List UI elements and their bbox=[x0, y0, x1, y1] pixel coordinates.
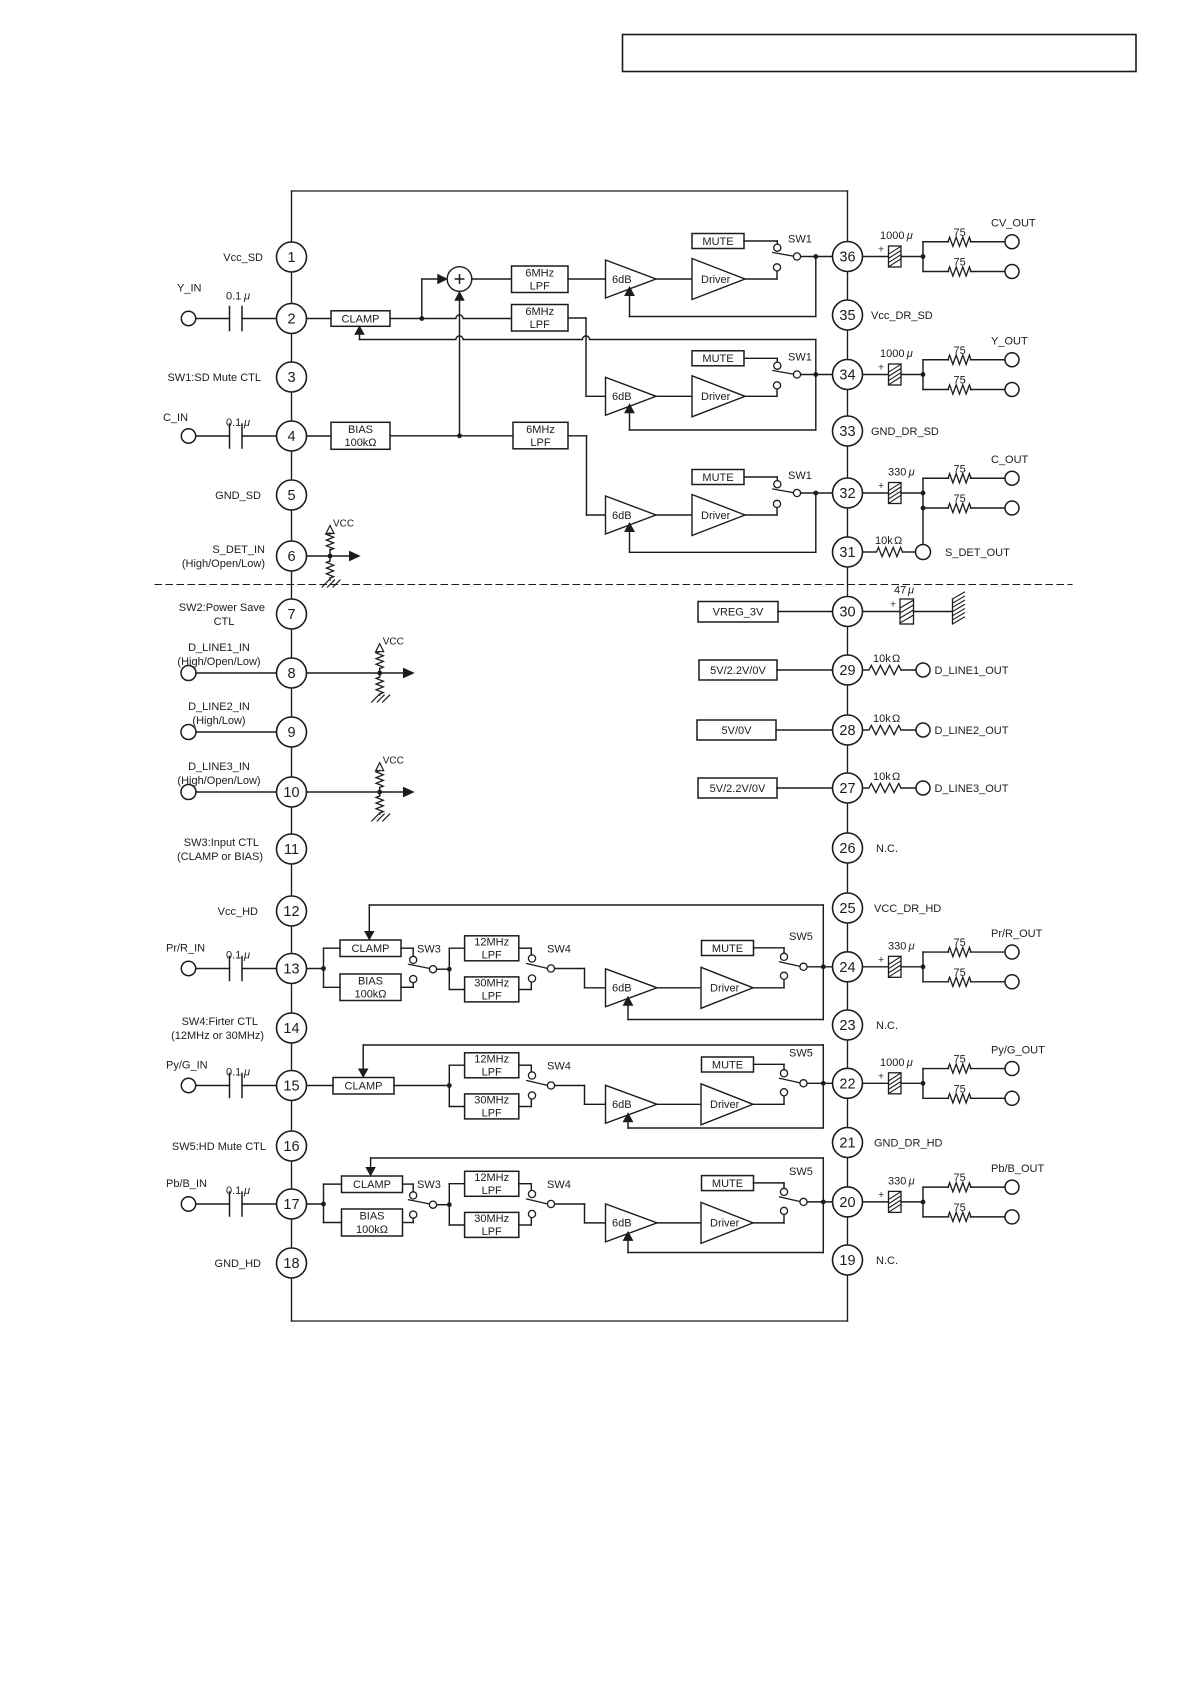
svg-text:34: 34 bbox=[839, 368, 855, 384]
svg-text:10k: 10k bbox=[873, 653, 891, 665]
svg-text:26: 26 bbox=[839, 841, 855, 857]
svg-text:28: 28 bbox=[839, 723, 855, 739]
svg-text:12MHz: 12MHz bbox=[474, 1054, 509, 1066]
svg-text:VREG_3V: VREG_3V bbox=[713, 607, 764, 619]
svg-text:SW4: SW4 bbox=[547, 1061, 571, 1073]
svg-text:C_OUT: C_OUT bbox=[991, 454, 1029, 466]
svg-text:BIAS: BIAS bbox=[348, 424, 373, 436]
svg-text:MUTE: MUTE bbox=[712, 1178, 743, 1190]
svg-text:GND_HD: GND_HD bbox=[215, 1258, 262, 1270]
svg-text:12: 12 bbox=[283, 904, 299, 920]
svg-text:75: 75 bbox=[954, 937, 966, 949]
svg-text:μ: μ bbox=[906, 348, 913, 360]
svg-text:SW3: SW3 bbox=[417, 1179, 441, 1191]
svg-text:Vcc_SD: Vcc_SD bbox=[223, 252, 263, 264]
svg-text:BIAS: BIAS bbox=[358, 975, 383, 987]
svg-text:Driver: Driver bbox=[701, 391, 731, 403]
svg-text:MUTE: MUTE bbox=[712, 943, 743, 955]
svg-text:+: + bbox=[890, 599, 896, 611]
svg-text:18: 18 bbox=[283, 1256, 299, 1272]
svg-text:10: 10 bbox=[283, 785, 299, 801]
svg-text:75: 75 bbox=[954, 493, 966, 505]
svg-text:13: 13 bbox=[283, 962, 299, 978]
svg-text:+: + bbox=[878, 362, 884, 374]
svg-text:BIAS: BIAS bbox=[359, 1211, 384, 1223]
svg-text:LPF: LPF bbox=[530, 437, 550, 449]
svg-text:SW1: SW1 bbox=[788, 470, 812, 482]
svg-text:GND_DR_HD: GND_DR_HD bbox=[874, 1138, 943, 1150]
svg-text:SW1: SW1 bbox=[788, 234, 812, 246]
svg-text:Pr/R_OUT: Pr/R_OUT bbox=[991, 928, 1043, 940]
svg-text:21: 21 bbox=[839, 1136, 855, 1152]
svg-text:CLAMP: CLAMP bbox=[345, 1081, 383, 1093]
svg-text:330: 330 bbox=[888, 467, 906, 479]
svg-text:Driver: Driver bbox=[701, 510, 731, 522]
svg-text:+: + bbox=[878, 954, 884, 966]
svg-text:75: 75 bbox=[954, 1172, 966, 1184]
svg-text:μ: μ bbox=[906, 230, 913, 242]
svg-text:75: 75 bbox=[954, 257, 966, 269]
svg-text:MUTE: MUTE bbox=[702, 353, 733, 365]
svg-text:30: 30 bbox=[839, 605, 855, 621]
svg-text:SW5: SW5 bbox=[789, 1047, 813, 1059]
svg-text:(CLAMP or BIAS): (CLAMP or BIAS) bbox=[177, 851, 263, 863]
svg-text:LPF: LPF bbox=[482, 1185, 502, 1197]
svg-text:Driver: Driver bbox=[710, 1218, 740, 1230]
svg-text:D_LINE1_IN: D_LINE1_IN bbox=[188, 642, 250, 654]
svg-text:Ω: Ω bbox=[892, 713, 900, 725]
svg-text:11: 11 bbox=[284, 842, 299, 858]
svg-text:Ω: Ω bbox=[892, 653, 900, 665]
svg-text:LPF: LPF bbox=[530, 319, 550, 331]
svg-text:C_IN: C_IN bbox=[163, 412, 188, 424]
svg-text:Driver: Driver bbox=[701, 274, 731, 286]
svg-text:(High/Open/Low): (High/Open/Low) bbox=[182, 558, 265, 570]
svg-text:μ: μ bbox=[908, 940, 915, 952]
svg-text:3: 3 bbox=[287, 370, 295, 386]
svg-text:9: 9 bbox=[287, 725, 295, 741]
svg-text:SW4:Firter CTL: SW4:Firter CTL bbox=[182, 1016, 258, 1028]
svg-text:14: 14 bbox=[283, 1021, 299, 1037]
svg-text:μ: μ bbox=[243, 417, 250, 429]
svg-text:Pr/R_IN: Pr/R_IN bbox=[166, 943, 205, 955]
svg-text:22: 22 bbox=[839, 1077, 855, 1093]
svg-text:D_LINE2_IN: D_LINE2_IN bbox=[188, 701, 250, 713]
svg-text:LPF: LPF bbox=[482, 1067, 502, 1079]
svg-text:6MHz: 6MHz bbox=[525, 306, 554, 318]
svg-text:33: 33 bbox=[839, 424, 855, 440]
svg-text:GND_DR_SD: GND_DR_SD bbox=[871, 426, 939, 438]
svg-text:330: 330 bbox=[888, 940, 906, 952]
svg-text:8: 8 bbox=[287, 666, 295, 682]
svg-text:D_LINE3_OUT: D_LINE3_OUT bbox=[935, 783, 1009, 795]
svg-text:Pb/B_OUT: Pb/B_OUT bbox=[991, 1163, 1044, 1175]
svg-text:25: 25 bbox=[839, 901, 855, 917]
svg-text:+: + bbox=[878, 1070, 884, 1082]
svg-text:7: 7 bbox=[287, 607, 295, 623]
svg-text:SW5: SW5 bbox=[789, 1166, 813, 1178]
svg-text:1000: 1000 bbox=[880, 1057, 904, 1069]
svg-text:15: 15 bbox=[283, 1079, 299, 1095]
svg-text:Driver: Driver bbox=[710, 983, 740, 995]
svg-text:31: 31 bbox=[839, 545, 855, 561]
svg-text:10k: 10k bbox=[873, 771, 891, 783]
svg-text:6MHz: 6MHz bbox=[525, 268, 554, 280]
svg-text:SW4: SW4 bbox=[547, 1179, 571, 1191]
svg-text:5: 5 bbox=[287, 488, 295, 504]
svg-text:SW5:HD Mute CTL: SW5:HD Mute CTL bbox=[172, 1141, 266, 1153]
svg-text:1000: 1000 bbox=[880, 230, 904, 242]
svg-text:5V/2.2V/0V: 5V/2.2V/0V bbox=[710, 783, 766, 795]
svg-text:30MHz: 30MHz bbox=[474, 1095, 509, 1107]
svg-text:CV_OUT: CV_OUT bbox=[991, 218, 1036, 230]
svg-text:4: 4 bbox=[287, 429, 295, 445]
svg-text:D_LINE1_OUT: D_LINE1_OUT bbox=[935, 665, 1009, 677]
svg-text:LPF: LPF bbox=[482, 1226, 502, 1238]
svg-text:+: + bbox=[878, 1189, 884, 1201]
svg-text:MUTE: MUTE bbox=[712, 1059, 743, 1071]
svg-text:6dB: 6dB bbox=[612, 274, 632, 286]
svg-text:75: 75 bbox=[954, 1083, 966, 1095]
svg-text:+: + bbox=[878, 244, 884, 256]
svg-text:16: 16 bbox=[283, 1139, 299, 1155]
svg-text:CTL: CTL bbox=[214, 616, 235, 628]
svg-text:19: 19 bbox=[839, 1253, 855, 1269]
svg-text:Ω: Ω bbox=[892, 771, 900, 783]
svg-text:μ: μ bbox=[908, 467, 915, 479]
svg-text:100kΩ: 100kΩ bbox=[356, 1224, 388, 1236]
svg-text:VCC: VCC bbox=[383, 756, 404, 767]
svg-text:5V/2.2V/0V: 5V/2.2V/0V bbox=[710, 665, 766, 677]
svg-text:VCC: VCC bbox=[333, 519, 354, 530]
svg-text:30MHz: 30MHz bbox=[474, 978, 509, 990]
svg-text:Py/G_OUT: Py/G_OUT bbox=[991, 1044, 1045, 1056]
svg-text:μ: μ bbox=[907, 585, 914, 597]
svg-text:47: 47 bbox=[894, 585, 906, 597]
svg-text:27: 27 bbox=[839, 781, 855, 797]
svg-text:6dB: 6dB bbox=[612, 391, 632, 403]
svg-text:330: 330 bbox=[888, 1175, 906, 1187]
svg-text:35: 35 bbox=[839, 308, 855, 324]
svg-text:0.1: 0.1 bbox=[226, 1185, 241, 1197]
svg-text:0.1: 0.1 bbox=[226, 950, 241, 962]
svg-text:5V/0V: 5V/0V bbox=[722, 725, 753, 737]
svg-text:12MHz: 12MHz bbox=[474, 1172, 509, 1184]
svg-text:MUTE: MUTE bbox=[702, 472, 733, 484]
svg-text:Y_IN: Y_IN bbox=[177, 283, 202, 295]
svg-text:Vcc_HD: Vcc_HD bbox=[218, 906, 258, 918]
svg-text:10k: 10k bbox=[875, 535, 893, 547]
svg-text:0.1: 0.1 bbox=[226, 1067, 241, 1079]
svg-text:36: 36 bbox=[839, 250, 855, 266]
svg-text:μ: μ bbox=[243, 950, 250, 962]
svg-text:6: 6 bbox=[287, 549, 295, 565]
svg-text:32: 32 bbox=[839, 486, 855, 502]
svg-text:SW1:SD Mute CTL: SW1:SD Mute CTL bbox=[167, 372, 261, 384]
svg-text:Pb/B_IN: Pb/B_IN bbox=[166, 1178, 207, 1190]
svg-text:μ: μ bbox=[243, 1185, 250, 1197]
svg-text:75: 75 bbox=[954, 227, 966, 239]
svg-text:LPF: LPF bbox=[482, 1108, 502, 1120]
svg-text:Vcc_DR_SD: Vcc_DR_SD bbox=[871, 310, 933, 322]
svg-text:μ: μ bbox=[908, 1175, 915, 1187]
svg-text:1: 1 bbox=[287, 250, 295, 266]
svg-text:CLAMP: CLAMP bbox=[342, 313, 380, 325]
svg-text:SW2:Power Save: SW2:Power Save bbox=[179, 602, 265, 614]
svg-text:(High/Low): (High/Low) bbox=[192, 715, 245, 727]
svg-text:GND_SD: GND_SD bbox=[215, 490, 261, 502]
svg-text:6dB: 6dB bbox=[612, 983, 632, 995]
svg-text:LPF: LPF bbox=[482, 950, 502, 962]
svg-text:VCC: VCC bbox=[383, 637, 404, 648]
svg-text:6MHz: 6MHz bbox=[526, 424, 555, 436]
svg-text:N.C.: N.C. bbox=[876, 843, 898, 855]
svg-text:100kΩ: 100kΩ bbox=[354, 989, 386, 1001]
svg-text:6dB: 6dB bbox=[612, 1099, 632, 1111]
svg-text:+: + bbox=[878, 480, 884, 492]
svg-text:S_DET_OUT: S_DET_OUT bbox=[945, 547, 1010, 559]
svg-text:S_DET_IN: S_DET_IN bbox=[212, 544, 265, 556]
svg-text:75: 75 bbox=[954, 1054, 966, 1066]
svg-text:LPF: LPF bbox=[530, 281, 550, 293]
svg-text:23: 23 bbox=[839, 1018, 855, 1034]
svg-text:LPF: LPF bbox=[482, 991, 502, 1003]
svg-text:6dB: 6dB bbox=[612, 510, 632, 522]
svg-text:Py/G_IN: Py/G_IN bbox=[166, 1060, 208, 1072]
svg-text:1000: 1000 bbox=[880, 348, 904, 360]
svg-text:VCC_DR_HD: VCC_DR_HD bbox=[874, 903, 941, 915]
svg-text:μ: μ bbox=[243, 1067, 250, 1079]
svg-text:(12MHz or 30MHz): (12MHz or 30MHz) bbox=[171, 1030, 264, 1042]
svg-text:SW4: SW4 bbox=[547, 944, 571, 956]
svg-text:75: 75 bbox=[954, 1202, 966, 1214]
svg-text:Driver: Driver bbox=[710, 1099, 740, 1111]
svg-text:75: 75 bbox=[954, 375, 966, 387]
svg-text:2: 2 bbox=[287, 312, 295, 328]
svg-text:D_LINE2_OUT: D_LINE2_OUT bbox=[935, 725, 1009, 737]
svg-text:(High/Open/Low): (High/Open/Low) bbox=[177, 775, 260, 787]
svg-text:75: 75 bbox=[954, 967, 966, 979]
svg-text:6dB: 6dB bbox=[612, 1218, 632, 1230]
svg-text:29: 29 bbox=[839, 663, 855, 679]
svg-text:CLAMP: CLAMP bbox=[352, 943, 390, 955]
svg-text:0.1: 0.1 bbox=[226, 417, 241, 429]
svg-text:100kΩ: 100kΩ bbox=[344, 437, 376, 449]
svg-text:CLAMP: CLAMP bbox=[353, 1179, 391, 1191]
svg-text:75: 75 bbox=[954, 463, 966, 475]
svg-text:Y_OUT: Y_OUT bbox=[991, 336, 1028, 348]
svg-text:SW5: SW5 bbox=[789, 931, 813, 943]
svg-text:N.C.: N.C. bbox=[876, 1255, 898, 1267]
svg-text:20: 20 bbox=[839, 1195, 855, 1211]
svg-text:SW3: SW3 bbox=[417, 944, 441, 956]
svg-text:μ: μ bbox=[243, 291, 250, 303]
svg-text:0.1: 0.1 bbox=[226, 291, 241, 303]
svg-text:12MHz: 12MHz bbox=[474, 937, 509, 949]
svg-text:10k: 10k bbox=[873, 713, 891, 725]
svg-text:(High/Open/Low): (High/Open/Low) bbox=[177, 656, 260, 668]
svg-text:17: 17 bbox=[283, 1197, 299, 1213]
svg-text:SW3:Input CTL: SW3:Input CTL bbox=[184, 837, 259, 849]
svg-text:30MHz: 30MHz bbox=[474, 1213, 509, 1225]
svg-text:Ω: Ω bbox=[894, 535, 902, 547]
svg-text:D_LINE3_IN: D_LINE3_IN bbox=[188, 761, 250, 773]
svg-text:μ: μ bbox=[906, 1057, 913, 1069]
svg-text:N.C.: N.C. bbox=[876, 1020, 898, 1032]
svg-text:75: 75 bbox=[954, 345, 966, 357]
svg-text:24: 24 bbox=[839, 960, 855, 976]
svg-text:SW1: SW1 bbox=[788, 352, 812, 364]
svg-text:MUTE: MUTE bbox=[702, 236, 733, 248]
